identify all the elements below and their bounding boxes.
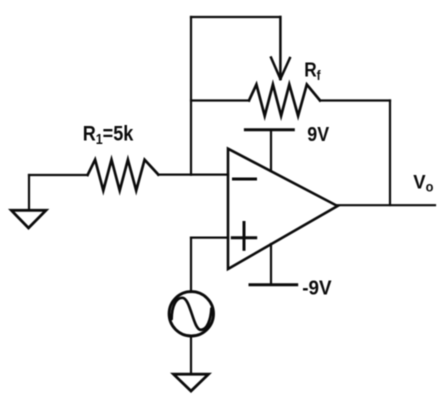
op-amp non-inverting input plus sign: [232, 223, 255, 250]
resistor Rf: [249, 85, 320, 116]
wire feedback left vertical: [190, 17, 192, 175]
wire Rf right lead: [320, 99, 390, 101]
op-amp inverting input minus sign: [234, 178, 256, 181]
wire negative supply: [270, 244, 272, 285]
wire feedback top horizontal: [191, 16, 280, 18]
wire output: [338, 204, 436, 206]
positive supply bar 9V: [245, 128, 293, 131]
op-amp U1: [228, 149, 338, 269]
label -9V: [302, 277, 331, 300]
ground (left): [11, 210, 46, 228]
wire non-inverting input: [191, 237, 228, 239]
label R1=5k: [83, 122, 134, 147]
svg-text:-9V: -9V: [302, 277, 331, 300]
wire to left ground: [28, 175, 30, 210]
resistor R1: [88, 160, 159, 191]
label Vo: [413, 172, 433, 194]
svg-text:R1=5k: R1=5k: [83, 122, 134, 147]
ac source sine wave: [172, 298, 212, 330]
negative supply bar -9V: [250, 283, 297, 286]
wire inverting input: [158, 174, 228, 176]
wire down to source: [190, 238, 192, 292]
variable resistor arrow (wiper into Rf): [271, 17, 290, 79]
wire positive supply: [270, 130, 272, 171]
svg-text:9V: 9V: [307, 124, 329, 146]
wire input left segment: [29, 174, 88, 176]
ground (bottom): [174, 374, 209, 391]
wire Rf left lead: [191, 99, 249, 101]
ac source V1 circle: [169, 292, 213, 336]
wire feedback right vertical: [389, 101, 391, 206]
label Rf: [304, 59, 321, 83]
wire source to ground: [190, 336, 192, 374]
label 9V: [307, 124, 329, 146]
